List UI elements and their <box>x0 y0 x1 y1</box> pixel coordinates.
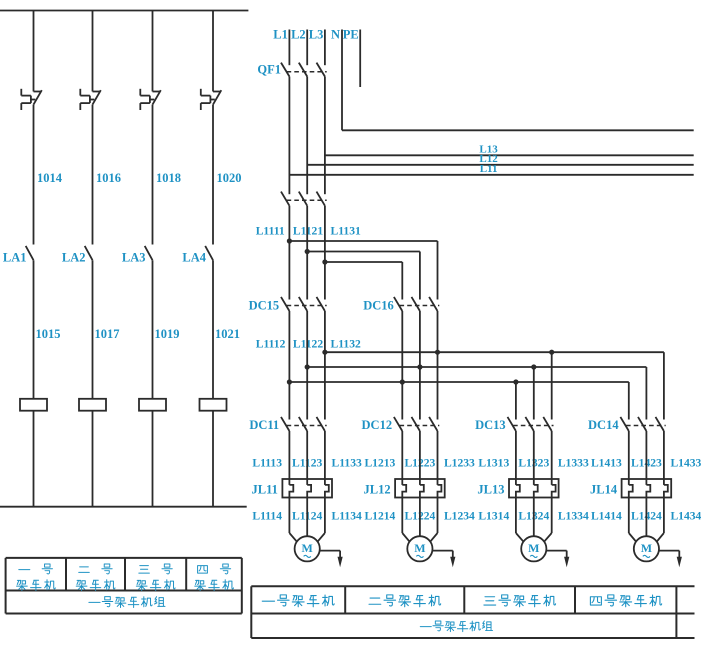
contactor DC13 (3-pole) <box>508 417 554 431</box>
contactor coil DC11 (branch 1) <box>20 399 47 411</box>
svg-text:L1434: L1434 <box>670 510 701 523</box>
switch contact LA1 <box>26 246 34 260</box>
heater element JL12-2 <box>420 485 424 498</box>
wire: motor 4 lead 3 <box>657 498 664 542</box>
heater element JL11-2 <box>307 485 311 498</box>
svg-text:1021: 1021 <box>215 327 240 341</box>
motor M2 <box>407 536 432 561</box>
bus L12 <box>307 164 694 166</box>
svg-text:L1: L1 <box>273 28 288 42</box>
wire: N conductor <box>342 30 694 131</box>
switch contact LA4 <box>205 246 213 260</box>
svg-text:LA4: LA4 <box>182 251 206 265</box>
contactor DC16 (3-pole) <box>394 297 439 311</box>
svg-text:L1112: L1112 <box>256 337 286 350</box>
heater element JL13-3 <box>552 485 556 498</box>
thermal relay JL13 body <box>509 479 559 498</box>
svg-text:1017: 1017 <box>95 327 120 341</box>
wire: motor 3 lead 3 <box>544 498 552 542</box>
wire: DC16 pole1 to bus C and DC12 pole1 <box>401 311 403 420</box>
switch contact LA2 <box>85 246 93 260</box>
wire: motor 2 lead 2 <box>419 498 421 537</box>
junction dots bus A <box>322 350 554 355</box>
wire: jumper L2 to DC16 pole 2 <box>307 252 420 300</box>
wire: branch 2 lower <box>92 260 94 399</box>
wire: L2 from QF1 to contactor <box>306 77 308 195</box>
wire: motor 2 lead 3 <box>430 498 437 542</box>
wire: branch 3 lower <box>152 260 154 399</box>
wire: motor 1 lead 3 <box>317 498 325 542</box>
table cell label 一号架车机组 (left) <box>89 597 165 608</box>
svg-text:L2: L2 <box>291 28 306 42</box>
bus C (phase L1 distribution) <box>289 382 628 420</box>
junction dot on L3 <box>322 259 327 264</box>
junction dots bus C <box>287 379 519 384</box>
svg-text:1020: 1020 <box>217 171 242 185</box>
heater element JL14-3 <box>664 485 668 498</box>
wire: PE conductor stub <box>359 30 361 88</box>
wire: branch 1 lower <box>33 260 35 399</box>
svg-text:M: M <box>302 541 313 555</box>
svg-text:L1214: L1214 <box>364 510 395 523</box>
motor M4 <box>634 536 659 561</box>
contactor coil DC12 (branch 2) <box>79 399 106 411</box>
wire: branch 1 upper <box>33 11 35 92</box>
contactor coil DC14 (branch 4) <box>200 399 227 411</box>
svg-text:L1113: L1113 <box>252 457 282 470</box>
motor M1 <box>295 536 320 561</box>
wire: branch 4 to return bus <box>212 411 214 507</box>
wire: motor 4 lead 2 <box>645 498 647 537</box>
wire: L3 from QF1 to contactor <box>324 77 326 195</box>
table cell label 四号架车机 (right) <box>590 595 661 607</box>
svg-text:L1413: L1413 <box>591 457 622 470</box>
wire: DC13 pole3 drop from bus A <box>551 352 553 419</box>
svg-text:L1134: L1134 <box>332 510 362 523</box>
svg-text:JL12: JL12 <box>364 483 391 497</box>
svg-text:QF1: QF1 <box>257 63 281 77</box>
table cell label 一号架车机 <box>17 564 56 591</box>
junction dot on L2 <box>305 249 310 254</box>
svg-text:PE: PE <box>343 28 359 42</box>
thermal overload NC contact JL13 (branch 3) <box>140 89 161 110</box>
wire: motor 1 lead 1 <box>289 498 297 542</box>
table cell label 一号架车机 (right) <box>262 595 334 607</box>
switch contact LA3 <box>145 246 153 260</box>
thermal overload NC contact JL11 (branch 1) <box>21 89 42 110</box>
heater element JL12-1 <box>402 485 406 498</box>
thermal overload NC contact JL14 (branch 4) <box>201 89 222 110</box>
junction dot on L1 <box>287 238 292 243</box>
wire: motor 1 lead 2 <box>306 498 308 537</box>
svg-text:L1313: L1313 <box>478 457 509 470</box>
wire: motor 2 lead 1 <box>402 498 409 542</box>
earth arrow motor 1 <box>320 551 343 568</box>
wire: DC11 pole 3 to JL11 <box>324 431 326 485</box>
circuit breaker QF1 (3-pole) <box>281 63 327 77</box>
wire: DC14 pole 1 to JL14 <box>628 431 630 485</box>
wire: L2 down through junction to DC15 <box>306 206 308 300</box>
wire: DC15 pole1 to bus C and DC11 pole1 <box>288 311 290 420</box>
wire: branch 3 upper <box>152 11 154 92</box>
junction dots bus B <box>305 364 537 369</box>
contactor DC11 (3-pole) <box>281 417 327 431</box>
bus B (phase L2 distribution) <box>307 367 646 420</box>
svg-text:L1333: L1333 <box>558 457 589 470</box>
svg-text:1018: 1018 <box>156 171 181 185</box>
svg-text:M: M <box>528 541 539 555</box>
svg-text:L1334: L1334 <box>558 510 589 523</box>
svg-text:1019: 1019 <box>155 327 180 341</box>
wire: DC15 pole2 to bus B and DC11 pole2 <box>306 311 308 420</box>
svg-text:LA2: LA2 <box>62 251 86 265</box>
wire: branch 2 middle <box>92 105 94 245</box>
thermal relay JL12 body <box>395 479 445 498</box>
svg-text:L1114: L1114 <box>252 510 282 523</box>
svg-text:1016: 1016 <box>96 171 121 185</box>
heater element JL11-3 <box>325 485 329 498</box>
wire: DC12 pole 2 to JL12 <box>419 431 421 485</box>
svg-text:1014: 1014 <box>37 171 63 185</box>
wire: branch 2 upper <box>92 11 94 92</box>
wire: DC11 pole 2 to JL11 <box>306 431 308 485</box>
svg-text:JL13: JL13 <box>477 483 504 497</box>
svg-text:L3: L3 <box>309 28 324 42</box>
wire: L1 from QF1 to contactor <box>288 77 290 195</box>
wire: jumper L1 to DC16 pole 3 <box>289 241 437 300</box>
wire: branch 3 to return bus <box>152 411 154 507</box>
table cell label 一号架车机组 (right) <box>420 621 492 632</box>
wire: DC13 pole 3 to JL13 <box>551 431 553 485</box>
wire: control supply top bus <box>0 10 248 12</box>
wire: DC12 pole 1 to JL12 <box>401 431 403 485</box>
table cell label 四号架车机 <box>195 564 234 591</box>
svg-text:1015: 1015 <box>36 327 61 341</box>
contactor coil DC13 (branch 3) <box>139 399 166 411</box>
wire: DC16 pole2 to bus B and DC12 pole2 <box>419 311 421 420</box>
wire: DC15 pole3 to bus A and DC11 pole3 <box>324 311 326 420</box>
contactor DC14 (3-pole) <box>620 417 665 431</box>
svg-text:DC16: DC16 <box>363 299 394 313</box>
svg-text:M: M <box>641 541 652 555</box>
table cell label 二号架车机 (right) <box>369 595 441 607</box>
wire: branch 4 upper <box>212 11 214 92</box>
heater element JL13-1 <box>516 485 520 498</box>
svg-text:L1122: L1122 <box>293 337 323 350</box>
svg-text:DC13: DC13 <box>475 418 506 432</box>
svg-text:M: M <box>414 541 425 555</box>
svg-text:L1414: L1414 <box>591 510 622 523</box>
table: left legend <box>6 558 242 614</box>
contactor DC12 (3-pole) <box>394 417 439 431</box>
earth arrow motor 3 <box>546 551 569 568</box>
wire: DC11 pole 1 to JL11 <box>288 431 290 485</box>
wire: branch 4 lower <box>212 260 214 399</box>
svg-text:L1132: L1132 <box>331 337 361 350</box>
svg-text:DC11: DC11 <box>249 418 279 432</box>
table cell label 三号架车机 <box>136 564 175 591</box>
bus A (phase L3 distribution) <box>325 352 664 419</box>
earth arrow motor 2 <box>433 551 456 568</box>
wire: motor 4 lead 1 <box>629 498 636 542</box>
svg-text:L1131: L1131 <box>331 225 361 238</box>
svg-text:JL14: JL14 <box>590 483 618 497</box>
thermal overload NC contact JL12 (branch 2) <box>80 89 101 110</box>
table cell label 二号架车机 <box>76 564 115 591</box>
heater element JL13-2 <box>534 485 538 498</box>
wire: L3 down through junction to DC15 <box>324 206 326 300</box>
wire: L1 down through junction to DC15 <box>288 206 290 300</box>
thermal relay JL14 body <box>622 479 672 498</box>
wire: DC14 pole 2 to JL14 <box>645 431 647 485</box>
wire: L1 drop to QF1 <box>288 30 290 66</box>
wire: control return bottom bus <box>0 506 247 508</box>
wire: DC12 pole 3 to JL12 <box>437 431 439 485</box>
wire: motor 3 lead 2 <box>533 498 535 537</box>
svg-text:L1433: L1433 <box>670 457 701 470</box>
svg-text:DC14: DC14 <box>588 418 619 432</box>
svg-text:L1121: L1121 <box>293 225 323 238</box>
svg-text:L1233: L1233 <box>444 457 475 470</box>
wire: jumper L3 to DC16 pole 1 <box>325 262 402 300</box>
wire: branch 4 middle <box>212 105 214 245</box>
wire: branch 1 to return bus <box>33 411 35 507</box>
contactor DC15 (3-pole) <box>281 297 327 311</box>
thermal relay JL11 body <box>282 479 332 498</box>
wire: branch 3 middle <box>152 105 154 245</box>
heater element JL14-1 <box>629 485 633 498</box>
heater element JL14-2 <box>646 485 650 498</box>
wire: L2 drop to QF1 <box>306 30 308 66</box>
svg-text:L11: L11 <box>480 163 498 175</box>
wire: branch 2 to return bus <box>92 411 94 507</box>
wire: DC13 pole1 drop from bus C <box>515 382 517 420</box>
svg-text:DC15: DC15 <box>249 299 280 313</box>
wire: DC13 pole 2 to JL13 <box>533 431 535 485</box>
wire: DC13 pole2 drop from bus B <box>533 367 535 420</box>
wire: DC14 pole 3 to JL14 <box>663 431 665 485</box>
wire: L3 drop to QF1 <box>324 30 326 66</box>
svg-text:L1234: L1234 <box>444 510 475 523</box>
wire: DC16 pole3 to bus A and DC12 pole3 <box>437 311 439 420</box>
wire: motor 3 lead 1 <box>516 498 524 542</box>
svg-text:LA3: LA3 <box>122 251 146 265</box>
wire: branch 1 middle <box>33 105 35 245</box>
table: right legend <box>251 586 694 638</box>
heater element JL11-1 <box>289 485 293 498</box>
heater element JL12-3 <box>438 485 442 498</box>
svg-text:N: N <box>331 28 340 42</box>
svg-text:JL11: JL11 <box>251 483 277 497</box>
table cell label 三号架车机 (right) <box>484 595 556 607</box>
svg-text:LA1: LA1 <box>3 251 27 265</box>
svg-text:L1213: L1213 <box>364 457 395 470</box>
bus L13 <box>325 154 694 156</box>
wire: DC13 pole 1 to JL13 <box>515 431 517 485</box>
bus L11 <box>289 174 693 176</box>
svg-text:L1314: L1314 <box>478 510 509 523</box>
main contactor (unlabelled, 3-pole) <box>281 192 327 206</box>
svg-text:DC12: DC12 <box>362 418 393 432</box>
svg-text:L1133: L1133 <box>332 457 362 470</box>
svg-text:L1111: L1111 <box>256 225 285 238</box>
motor M3 <box>521 536 546 561</box>
earth arrow motor 4 <box>659 551 682 568</box>
